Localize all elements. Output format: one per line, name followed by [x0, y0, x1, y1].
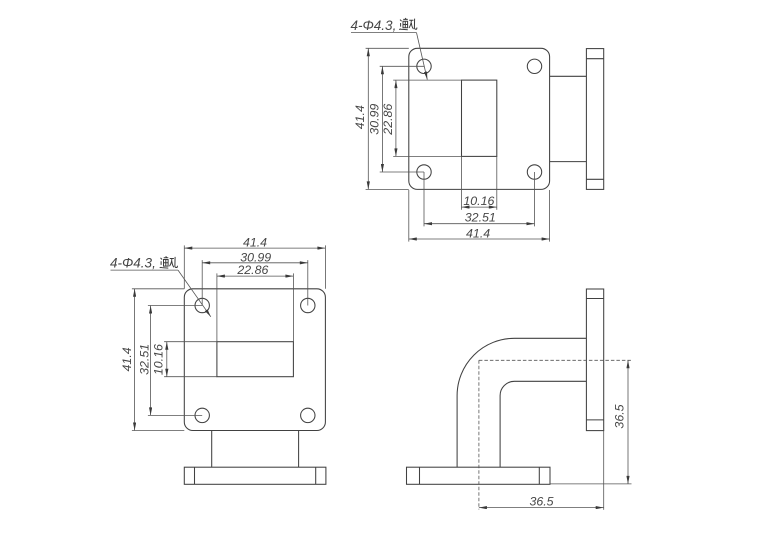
- svg-text:32.51: 32.51: [465, 211, 496, 225]
- elbow outer profile: [457, 338, 586, 467]
- svg-text:41.4: 41.4: [243, 236, 267, 250]
- axis centerline horizontal dashed: [479, 359, 632, 361]
- dim line 36.5 right: [627, 360, 629, 484]
- ext lines 30.99 (hole centers extended left): [380, 65, 424, 67]
- dim line 10.16 left: [166, 342, 168, 377]
- neck left line: [211, 431, 213, 468]
- right flange top cap line: [586, 298, 603, 300]
- callout leader left view: [178, 270, 211, 317]
- flange plate outline: [409, 48, 550, 189]
- svg-text:10.16: 10.16: [463, 194, 494, 208]
- dim line 41.4 left: [134, 289, 136, 431]
- svg-text:30.99: 30.99: [240, 250, 271, 264]
- dim line 22.86: [395, 80, 397, 156]
- neck right line: [298, 431, 300, 468]
- dim line 41.4: [367, 48, 369, 189]
- neck top line: [550, 75, 587, 77]
- dim line 36.5 bottom: [479, 507, 604, 509]
- svg-text:10.16: 10.16: [152, 344, 166, 375]
- callout underline: [351, 32, 417, 34]
- svg-text:22.86: 22.86: [381, 104, 395, 136]
- dimensions of left view: [111, 245, 326, 430]
- waveguide aperture left view: [217, 342, 294, 377]
- elbow inner profile: [500, 381, 586, 467]
- bottom plate left cap line: [194, 467, 196, 484]
- ext line right flange face down: [603, 431, 605, 510]
- ext lines 32.51 below holes: [423, 172, 425, 226]
- dim line 10.16: [462, 206, 497, 208]
- ext lines 10.16 left: [164, 341, 217, 343]
- flange plate outline left view: [184, 289, 325, 431]
- svg-text:41.4: 41.4: [466, 226, 490, 240]
- ext lines 22.86 (aperture edges extended left): [393, 79, 461, 81]
- axes and dimensions of elbow view: [479, 360, 632, 510]
- dim line 41.4 bottom: [409, 238, 550, 240]
- neck bottom line: [550, 161, 587, 163]
- axis centerline vertical dashed: [478, 360, 480, 509]
- ext lines 41.4 bottom: [408, 190, 410, 242]
- side flange plate: [586, 49, 603, 190]
- hanzi tong-kong top callout: [399, 18, 408, 30]
- callout underline left view: [111, 269, 179, 271]
- bottom port flange plate: [407, 467, 551, 484]
- bolt hole bottom-left: [195, 408, 209, 422]
- ext lines 41.4 (flange edges extended left): [366, 47, 409, 49]
- waveguide aperture: [462, 80, 497, 156]
- ext lines 22.86 top: [216, 273, 218, 341]
- dim line 32.51: [424, 223, 535, 225]
- svg-text:36.5: 36.5: [612, 404, 626, 428]
- side flange bottom cap line: [586, 178, 603, 180]
- bottom plate right cap line: [315, 467, 317, 484]
- callout leader: [417, 33, 428, 80]
- bolt hole bottom-right: [527, 165, 541, 179]
- right port flange plate: [586, 289, 603, 431]
- side flange top cap line: [586, 58, 603, 60]
- bolt hole bottom-left: [417, 165, 431, 179]
- right flange bottom cap line: [586, 419, 603, 421]
- ext lines 32.51 left: [148, 305, 202, 307]
- bolt hole top-right: [527, 59, 541, 73]
- dim line 41.4 top: [184, 247, 325, 249]
- svg-text:41.4: 41.4: [120, 347, 134, 371]
- svg-text:32.51: 32.51: [138, 344, 152, 375]
- svg-text:4-Φ4.3,: 4-Φ4.3,: [110, 255, 156, 270]
- ext lines 10.16 below aperture: [461, 156, 463, 209]
- bottom flange plate: [184, 467, 326, 484]
- dim line 22.86 top: [217, 275, 294, 277]
- svg-text:41.4: 41.4: [353, 105, 367, 129]
- bolt hole top-right: [301, 298, 315, 312]
- dim line 30.99 top: [202, 262, 308, 264]
- bottom plate left cap line: [419, 467, 421, 484]
- svg-text:36.5: 36.5: [529, 494, 553, 508]
- bolt hole bottom-right: [301, 408, 315, 422]
- svg-text:22.86: 22.86: [236, 263, 268, 277]
- ext lines 41.4 top: [183, 245, 185, 288]
- bottom plate right cap line: [538, 467, 540, 484]
- ext lines 41.4 left: [132, 288, 184, 290]
- dim line 32.51 left: [150, 306, 152, 416]
- svg-text:4-Φ4.3,: 4-Φ4.3,: [351, 18, 397, 33]
- bolt hole top-left: [417, 59, 431, 73]
- dimensions of top-right view: [351, 33, 550, 242]
- ext lines 30.99 top: [201, 260, 203, 305]
- svg-text:30.99: 30.99: [367, 104, 381, 135]
- hanzi tong-kong left callout: [160, 256, 169, 268]
- ext line bottom of plate to right: [550, 483, 631, 485]
- bolt hole top-left: [195, 298, 209, 312]
- dim line 30.99: [381, 66, 383, 172]
